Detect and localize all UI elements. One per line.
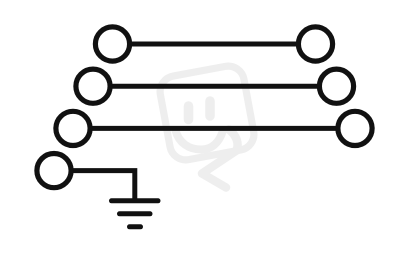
watermark logo bbox=[157, 63, 256, 187]
terminal circle row 2 right bbox=[319, 69, 353, 103]
wire row 4 (PE branch) bbox=[54, 168, 137, 200]
terminal circle row 3 right bbox=[338, 111, 372, 145]
terminal circle row 4 left bbox=[37, 154, 71, 188]
wire row 2 bbox=[93, 84, 337, 89]
terminal circle row 3 left bbox=[56, 111, 90, 145]
terminal circle row 1 right bbox=[298, 27, 332, 61]
wire row 3 bbox=[73, 126, 355, 131]
wire row 1 bbox=[113, 42, 316, 47]
ground bbox=[112, 201, 159, 227]
terminal circle row 2 left bbox=[76, 69, 110, 103]
terminal circle row 1 left bbox=[95, 27, 129, 61]
